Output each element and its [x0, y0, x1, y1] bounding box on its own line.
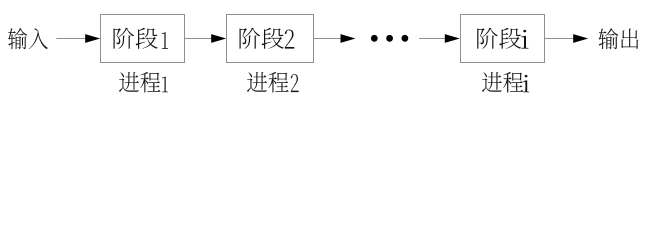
label 输出 (output)	[599, 28, 639, 49]
arrow 3: stage 2 to ellipsis	[314, 34, 356, 43]
label 阶段1 (stage 1)	[114, 28, 169, 49]
label 进程2 (process 2)	[247, 72, 299, 93]
label 输入 (input)	[8, 28, 48, 49]
box stage i (阶段i)	[461, 15, 545, 63]
arrow 1: input to stage 1 (shaft + solid head)	[56, 34, 100, 43]
label 进程i (process i)	[482, 72, 529, 93]
label 阶段2 (stage 2)	[240, 28, 295, 49]
box stage 1 (阶段1)	[101, 15, 185, 63]
label 阶段i (stage i)	[477, 28, 528, 49]
arrow 5: stage i to output	[545, 34, 588, 43]
ellipsis dots (3 black circles)	[371, 35, 408, 42]
label 进程1 (process 1)	[119, 72, 168, 93]
arrow 2: stage 1 to stage 2	[185, 34, 226, 43]
box stage 2 (阶段2)	[227, 15, 314, 63]
arrow 4: ellipsis to stage i	[419, 34, 460, 43]
